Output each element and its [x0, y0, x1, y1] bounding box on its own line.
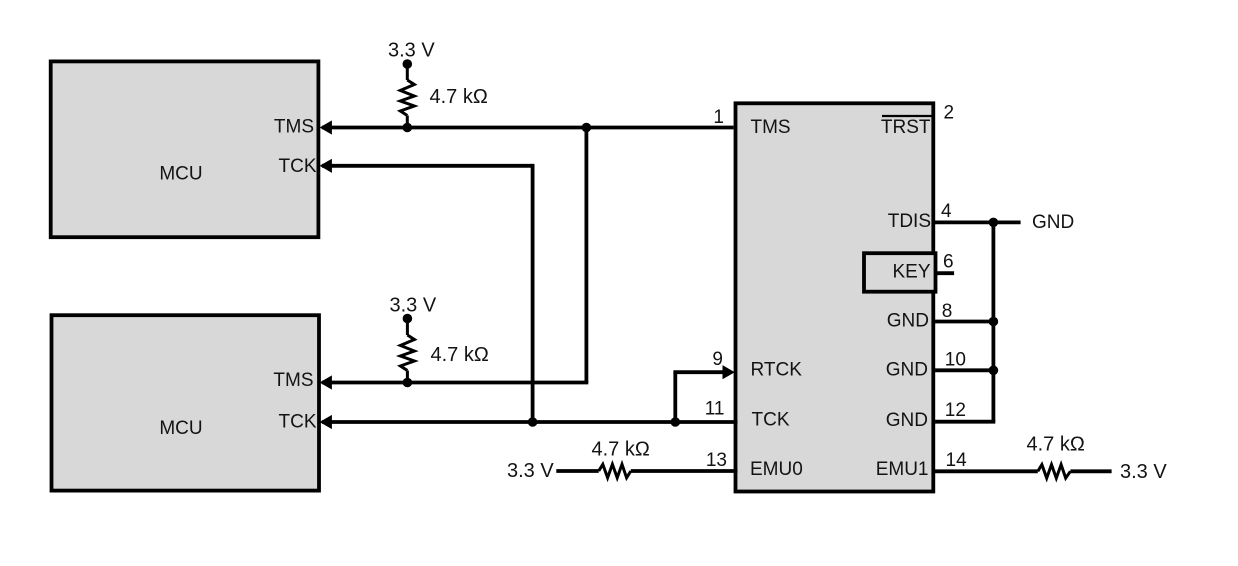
svg-text:TCK: TCK — [752, 410, 790, 431]
TRST overline — [882, 115, 933, 117]
svg-text:2: 2 — [944, 103, 955, 124]
svg-text:TMS: TMS — [751, 117, 791, 138]
svg-text:GND: GND — [1032, 212, 1074, 233]
arrowhead into U2 TMS — [320, 375, 332, 389]
node TDIS/bus junction — [989, 218, 999, 228]
svg-text:4.7 kΩ: 4.7 kΩ — [592, 439, 650, 461]
wire TCK vertical drop — [531, 164, 535, 422]
arrowhead into U1 TCK — [320, 159, 332, 173]
node 3.3V terminal dot R1 — [403, 59, 413, 69]
wire R4 to 3.3V — [1070, 469, 1111, 473]
svg-text:3.3 V: 3.3 V — [390, 295, 437, 317]
svg-text:TMS: TMS — [274, 117, 314, 138]
resistor R4 4.7k (EMU1) — [1038, 465, 1071, 479]
svg-text:3.3 V: 3.3 V — [388, 40, 435, 62]
MCU box U1 (top) — [51, 61, 319, 237]
wire EMU1 pin 14 to R4 — [934, 469, 1038, 473]
wire TMS vertical drop — [585, 128, 589, 383]
JTAG connector box J1 — [736, 103, 934, 491]
svg-text:RTCK: RTCK — [751, 360, 803, 381]
wire GND pin 12 — [934, 420, 995, 424]
svg-text:GND: GND — [887, 311, 929, 332]
node GND8/bus junction — [989, 317, 999, 327]
svg-text:4.7 kΩ: 4.7 kΩ — [431, 344, 489, 366]
svg-text:12: 12 — [945, 400, 966, 421]
wire RTCK branch horizontal — [673, 370, 723, 374]
wire TDIS pin 4 to GND — [934, 220, 1021, 224]
svg-text:TMS: TMS — [273, 370, 313, 391]
wire RTCK branch vertical — [673, 372, 677, 422]
svg-text:13: 13 — [706, 450, 727, 471]
arrowhead into J1 RTCK pin 9 — [723, 365, 735, 379]
wire TMS net: U1 TMS to J1 pin 1 — [322, 126, 734, 130]
node GND10/bus junction — [989, 366, 999, 376]
node junction R2 on TMS2 wire — [403, 378, 413, 388]
wire R3 to EMU0 pin 13 — [631, 469, 738, 473]
node TMS junction (drop to U2) — [582, 123, 592, 133]
svg-text:4.7 kΩ: 4.7 kΩ — [430, 86, 488, 108]
resistor R2 4.7k pull-up (bottom) — [400, 319, 414, 383]
svg-text:EMU1: EMU1 — [876, 459, 929, 480]
resistor R1 4.7k pull-up (top) — [400, 64, 414, 128]
svg-text:10: 10 — [945, 350, 966, 371]
svg-text:11: 11 — [705, 399, 725, 420]
svg-text:3.3 V: 3.3 V — [507, 460, 554, 482]
wire GND bus vertical — [992, 222, 996, 421]
svg-text:TCK: TCK — [279, 412, 317, 433]
node TCK junction with U1 branch — [528, 417, 538, 427]
svg-text:MCU: MCU — [159, 164, 202, 185]
svg-text:4: 4 — [941, 201, 952, 222]
svg-text:6: 6 — [943, 251, 954, 272]
MCU box U2 (bottom) — [52, 315, 320, 490]
svg-text:3.3 V: 3.3 V — [1120, 461, 1167, 483]
resistor R3 4.7k (EMU0) — [599, 464, 631, 478]
node junction R1 on TMS wire — [403, 123, 413, 133]
node TCK junction with RTCK branch — [671, 417, 681, 427]
svg-text:GND: GND — [886, 359, 928, 380]
svg-text:TRST: TRST — [881, 117, 931, 138]
arrowhead into U1 TMS — [320, 120, 332, 134]
wire TMS to U2 — [322, 381, 588, 385]
svg-text:9: 9 — [712, 349, 723, 370]
svg-text:8: 8 — [942, 301, 953, 322]
svg-text:TDIS: TDIS — [888, 211, 931, 232]
node 3.3V terminal dot R2 — [403, 314, 413, 324]
svg-text:GND: GND — [886, 410, 928, 431]
wire TCK main horizontal to J1 pin 11 — [322, 420, 738, 424]
svg-text:EMU0: EMU0 — [750, 459, 803, 480]
wire KEY pin 6 stub — [935, 271, 954, 275]
svg-text:1: 1 — [713, 107, 724, 128]
svg-text:TCK: TCK — [279, 156, 317, 177]
svg-text:MCU: MCU — [159, 418, 202, 439]
wire 3.3V to R3 — [556, 469, 598, 473]
KEY notch box — [864, 253, 936, 292]
svg-text:KEY: KEY — [892, 262, 930, 283]
wire GND pin 10 — [934, 368, 995, 372]
svg-text:14: 14 — [946, 450, 968, 471]
arrowhead into U2 TCK — [320, 415, 332, 429]
wire GND pin 8 — [934, 320, 995, 324]
wire TCK net: U1 TCK horizontal — [322, 164, 533, 168]
svg-text:4.7 kΩ: 4.7 kΩ — [1027, 434, 1085, 456]
